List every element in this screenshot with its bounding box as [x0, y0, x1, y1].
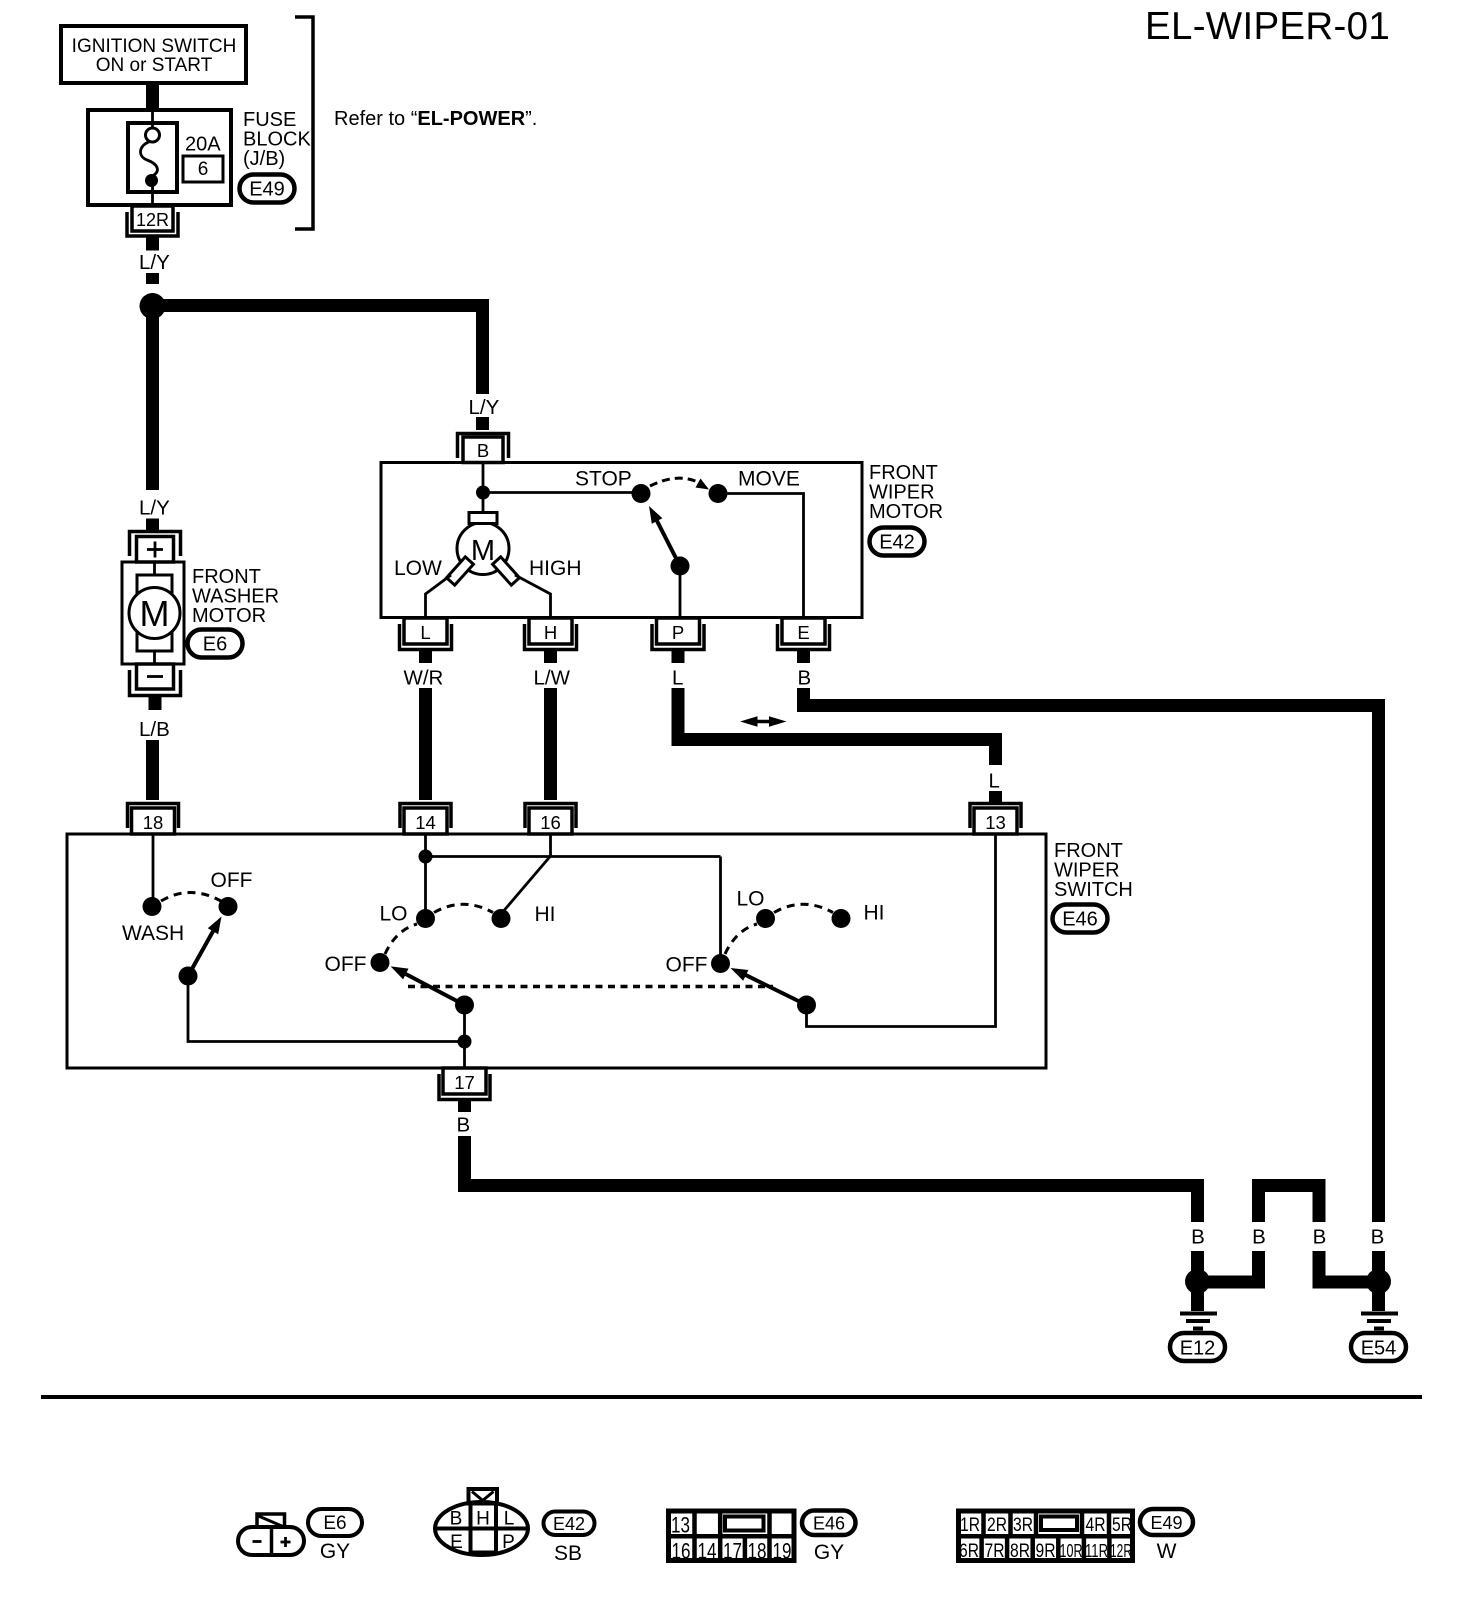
node junction below pin 14	[419, 850, 433, 864]
svg-text:12R: 12R	[136, 210, 169, 230]
contact OFF (wash)	[219, 897, 238, 916]
node ground junction E12	[1185, 1269, 1210, 1294]
wire junction down to motor	[482, 493, 485, 514]
svg-text:L: L	[989, 770, 1000, 793]
svg-text:M: M	[140, 593, 170, 634]
svg-text:E46: E46	[813, 1514, 845, 1534]
svg-text:M: M	[471, 535, 495, 567]
contact OFF (wiper1)	[371, 953, 390, 972]
svg-text:H: H	[544, 622, 557, 643]
pin L connector	[400, 624, 452, 650]
dashed arc OFF to LO (wiper2)	[725, 924, 757, 954]
wire ignition to fuse block (thick stub)	[146, 83, 159, 108]
svg-text:L/Y: L/Y	[139, 497, 170, 520]
wire wiper2 pivot to pin 13	[807, 834, 996, 1027]
wire right OFF down from junction line	[719, 857, 722, 957]
fuse block (J/B) box E49	[88, 110, 231, 205]
node junction above pin 17	[458, 1035, 472, 1049]
dashed arc WASH to OFF	[161, 893, 221, 902]
svg-text:ON or START: ON or START	[96, 55, 213, 76]
svg-text:E42: E42	[879, 532, 915, 554]
svg-text:12R: 12R	[1110, 1541, 1132, 1561]
contact WASH	[143, 897, 162, 916]
ground symbol E54	[1372, 1290, 1385, 1311]
wire into fuse	[151, 108, 154, 130]
wire stub below pin 17	[458, 1101, 471, 1112]
legend E49 connector face	[959, 1511, 1133, 1561]
wire pin 16 to HI contact	[501, 834, 551, 914]
connector id E49 oval	[240, 175, 295, 203]
park switch arm	[656, 519, 680, 566]
svg-text:10R: 10R	[1060, 1541, 1083, 1561]
svg-text:3R: 3R	[1013, 1515, 1033, 1536]
svg-text:H: H	[476, 1509, 490, 1530]
symbol double arrow	[750, 720, 777, 724]
svg-text:7R: 7R	[985, 1541, 1005, 1562]
wash switch pivot	[179, 967, 198, 986]
svg-text:13: 13	[671, 1513, 690, 1538]
wire pin 18 to WASH contact	[152, 834, 155, 900]
wiper1 switch arm	[405, 974, 465, 1005]
wire stub col4 to E54 dot	[1372, 1251, 1385, 1271]
legend connector id E49 oval	[1140, 1509, 1193, 1535]
svg-text:8R: 8R	[1010, 1541, 1030, 1562]
svg-text:GY: GY	[320, 1540, 350, 1563]
connector id E12 oval	[1170, 1333, 1225, 1361]
wire LOW to L pin	[426, 575, 452, 617]
pin 14 connector	[400, 804, 451, 829]
front wiper motor box E42	[381, 463, 862, 618]
svg-text:E42: E42	[553, 1514, 585, 1534]
dashed arc LO to HI (wiper2)	[774, 904, 833, 912]
wire W/R L pin to switch pin 14	[419, 688, 432, 800]
svg-text:18: 18	[143, 812, 164, 833]
connector id E42 oval	[870, 528, 925, 556]
svg-text:OFF: OFF	[666, 954, 708, 977]
connector id E54 oval	[1351, 1333, 1406, 1361]
svg-text:2R: 2R	[987, 1515, 1007, 1536]
legend connector id E46 oval	[802, 1511, 856, 1536]
legend E46 connector face	[669, 1511, 795, 1561]
svg-text:P: P	[502, 1532, 515, 1553]
svg-text:E: E	[797, 622, 809, 643]
svg-text:16: 16	[672, 1539, 691, 1564]
wiper motor M symbol	[457, 523, 509, 575]
svg-text:OFF: OFF	[211, 869, 253, 892]
wire pin 14 down	[424, 834, 427, 912]
wire stub above pin 13	[989, 791, 1002, 802]
svg-text:MOTOR: MOTOR	[869, 501, 943, 523]
svg-text:P: P	[672, 622, 684, 643]
wire B from E pin to right side	[804, 688, 1379, 1222]
svg-text:L: L	[672, 667, 683, 690]
wire stub below - pin	[149, 697, 162, 710]
park switch pivot	[671, 557, 690, 576]
svg-text:B: B	[457, 1114, 471, 1137]
fuse 20A box	[128, 123, 177, 192]
svg-text:L/Y: L/Y	[139, 251, 170, 274]
svg-text:20A: 20A	[185, 134, 221, 156]
svg-text:E12: E12	[1180, 1338, 1216, 1360]
wire pivot to P pin	[679, 566, 682, 617]
wire wash pivot to junction	[188, 976, 465, 1042]
svg-text:17: 17	[454, 1072, 475, 1093]
svg-text:LOW: LOW	[394, 557, 442, 580]
refer bracket	[295, 17, 313, 229]
separator line	[41, 1395, 1422, 1399]
wire MOVE to E pin	[718, 494, 804, 618]
wiper1 switch pivot	[455, 996, 474, 1015]
svg-text:E46: E46	[1062, 909, 1098, 931]
legend connector id E6 oval	[308, 1509, 362, 1536]
svg-text:HIGH: HIGH	[529, 557, 582, 580]
pin 18 connector	[128, 804, 179, 829]
node junction L/Y	[140, 293, 166, 319]
svg-text:5R: 5R	[1112, 1515, 1132, 1536]
svg-text:L: L	[504, 1509, 515, 1530]
wire stub above B pin	[476, 417, 489, 430]
svg-text:6: 6	[198, 159, 209, 180]
svg-text:W/R: W/R	[404, 667, 444, 690]
washer motor M circle	[129, 588, 180, 639]
svg-text:HI: HI	[864, 902, 885, 925]
dashed arc LO to HI (wiper1)	[434, 904, 493, 912]
pin E connector	[778, 624, 830, 650]
pin 17 connector	[439, 1074, 490, 1100]
node junction at motor	[476, 486, 490, 500]
svg-text:B: B	[450, 1509, 463, 1530]
node ground junction E54	[1366, 1269, 1391, 1294]
wire L/Y junction down to washer motor	[146, 306, 159, 490]
svg-text:E: E	[450, 1532, 463, 1553]
contact MOVE	[709, 484, 728, 503]
wire B bridge between grounds	[1259, 1186, 1320, 1223]
wire L/W H pin to switch pin 16	[544, 688, 557, 800]
contact LO (wiper2)	[756, 909, 775, 928]
svg-text:11R: 11R	[1085, 1541, 1108, 1561]
svg-text:18: 18	[748, 1539, 767, 1564]
wire stub above + pin	[146, 519, 159, 531]
svg-text:IGNITION SWITCH: IGNITION SWITCH	[72, 36, 237, 57]
svg-text:14: 14	[415, 812, 436, 833]
wire junction to STOP contact	[483, 491, 638, 494]
wire fuse to 12R	[151, 181, 154, 208]
svg-text:SWITCH: SWITCH	[1054, 879, 1133, 901]
wire col2 into E12 dot	[1200, 1251, 1259, 1282]
pin 16 connector	[525, 804, 576, 829]
svg-text:17: 17	[723, 1539, 742, 1564]
wiper2 switch arm	[745, 975, 807, 1005]
svg-text:19: 19	[773, 1539, 792, 1564]
wire L/B to switch pin 18	[146, 740, 159, 800]
svg-text:13: 13	[985, 812, 1006, 833]
legend connector id E42 oval	[544, 1512, 595, 1536]
dashed arc OFF to LO (wiper1)	[385, 924, 417, 954]
wire wiper1 pivot down	[463, 1005, 466, 1068]
svg-text:E6: E6	[203, 634, 227, 656]
contact STOP	[632, 484, 651, 503]
pin 13 connector	[970, 804, 1021, 829]
wire col3 into E54 dot	[1319, 1251, 1377, 1282]
pin P connector	[652, 624, 704, 650]
connector id E46 oval	[1053, 905, 1108, 933]
svg-text:B: B	[1191, 1226, 1205, 1249]
pin H connector	[525, 624, 577, 650]
dashed arc STOP to MOVE with arrow	[650, 478, 700, 486]
contact OFF (wiper2)	[711, 954, 730, 973]
svg-text:HI: HI	[535, 903, 556, 926]
svg-text:(J/B): (J/B)	[243, 148, 285, 170]
svg-text:B: B	[477, 440, 489, 461]
svg-text:B: B	[1313, 1226, 1327, 1249]
fuse number 6 box	[183, 156, 223, 182]
fuse element symbol	[146, 128, 160, 142]
contact LO (wiper1)	[416, 909, 435, 928]
svg-text:B: B	[1371, 1226, 1385, 1249]
legend E6 connector face	[238, 1527, 304, 1555]
svg-text:1R: 1R	[960, 1515, 980, 1536]
dashed link line between arms	[408, 985, 773, 989]
svg-text:EL-WIPER-01: EL-WIPER-01	[1145, 5, 1390, 48]
pin B connector (front wiper motor)	[458, 434, 509, 459]
svg-text:MOTOR: MOTOR	[192, 605, 266, 627]
svg-text:E49: E49	[249, 179, 285, 201]
svg-text:E49: E49	[1150, 1513, 1182, 1533]
svg-text:W: W	[1157, 1540, 1177, 1563]
wash switch arm	[188, 930, 214, 977]
svg-text:6R: 6R	[959, 1541, 979, 1562]
svg-text:B: B	[798, 667, 812, 690]
connector id E6 oval	[188, 630, 243, 658]
ignition switch box	[61, 26, 246, 83]
wire junction to right OFF	[426, 855, 721, 858]
svg-text:STOP: STOP	[575, 468, 632, 491]
wire stub col1 to E12 dot	[1191, 1251, 1204, 1271]
pin + connector (washer motor)	[130, 532, 181, 557]
svg-text:LO: LO	[737, 888, 765, 911]
svg-text:14: 14	[698, 1539, 717, 1564]
svg-text:Refer to “EL-POWER”.: Refer to “EL-POWER”.	[334, 108, 537, 130]
legend E42 connector face	[435, 1502, 528, 1555]
svg-text:GY: GY	[814, 1541, 844, 1564]
svg-text:L: L	[420, 622, 430, 643]
wire L/Y junction to front wiper motor B	[158, 306, 483, 395]
svg-text:SB: SB	[554, 1542, 582, 1565]
pin - connector (washer motor)	[137, 664, 174, 689]
svg-text:9R: 9R	[1036, 1541, 1056, 1562]
contact HI (wiper1)	[492, 909, 511, 928]
svg-text:L/Y: L/Y	[469, 396, 500, 419]
wire stub above junction	[146, 273, 159, 284]
svg-text:OFF: OFF	[325, 953, 367, 976]
svg-text:E54: E54	[1361, 1338, 1397, 1360]
wire B from pin 17 to E12 ground	[465, 1136, 1198, 1222]
wire L from P pin to switch pin 13	[678, 688, 996, 765]
svg-text:16: 16	[540, 812, 561, 833]
contact HI (wiper2)	[832, 909, 851, 928]
wire stub below 12R	[146, 238, 159, 251]
svg-text:4R: 4R	[1086, 1515, 1106, 1536]
ground symbol E12	[1191, 1290, 1204, 1311]
svg-text:MOVE: MOVE	[738, 468, 800, 491]
front wiper switch box E46	[67, 834, 1046, 1068]
svg-text:WASH: WASH	[122, 922, 184, 945]
front washer motor M1 box	[122, 562, 184, 664]
pin 12R connector	[132, 206, 173, 231]
svg-text:B: B	[1252, 1226, 1266, 1249]
svg-text:L/B: L/B	[139, 718, 170, 741]
svg-text:LO: LO	[380, 903, 408, 926]
wiper2 switch pivot	[797, 996, 816, 1015]
wire HIGH to H pin	[515, 575, 551, 617]
svg-text:E6: E6	[323, 1513, 346, 1534]
wire B pin to junction	[482, 463, 485, 490]
svg-text:L/W: L/W	[534, 667, 571, 690]
